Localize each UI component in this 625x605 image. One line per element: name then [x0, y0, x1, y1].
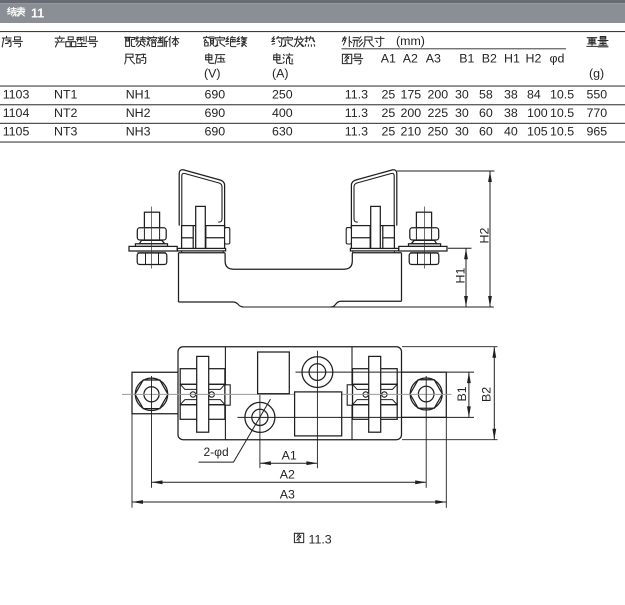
- svg-text:30: 30: [455, 106, 469, 120]
- block mid lines: [182, 237, 194, 239]
- H2 dimension line: [489, 171, 491, 307]
- A3 left extension: [131, 414, 133, 508]
- header 约定发热: [272, 36, 315, 46]
- svg-text:11.3: 11.3: [345, 125, 368, 139]
- header 配装熔断体: [125, 36, 179, 46]
- blade holder verticals: [192, 226, 194, 249]
- lug centerline / A2 left extension: [151, 376, 153, 488]
- stud: [416, 212, 431, 228]
- center upper rectangle: [258, 352, 290, 394]
- left pad outer circle: [135, 378, 167, 410]
- stud: [144, 212, 159, 228]
- spring clip inner: [354, 173, 394, 225]
- blade slot: [369, 356, 381, 432]
- header separator rule: [0, 86, 625, 87]
- leader line to 2-phi-d: [199, 399, 271, 462]
- right terminal bolt (mirrored): [399, 207, 447, 269]
- svg-text:A3: A3: [280, 487, 295, 501]
- contact plate: [180, 384, 225, 404]
- contact plate: [353, 384, 398, 404]
- upper clamp block: [180, 369, 225, 385]
- svg-text:10.5: 10.5: [550, 125, 574, 139]
- left mounting pad: [132, 372, 178, 414]
- right pad hole: [418, 386, 434, 402]
- center lower rectangle: [295, 392, 342, 436]
- fuse blade: [371, 206, 381, 248]
- svg-text:225: 225: [428, 106, 449, 120]
- svg-text:A1: A1: [282, 448, 297, 462]
- base bottom right: [331, 301, 402, 307]
- svg-text:400: 400: [272, 106, 293, 120]
- terminal bar: [129, 246, 177, 251]
- blade slot: [197, 356, 209, 432]
- caption 图 11.3: [294, 533, 303, 542]
- svg-text:H1: H1: [504, 51, 520, 65]
- header 电压: [206, 54, 225, 64]
- header bar: [0, 0, 625, 3]
- svg-text:630: 630: [272, 125, 293, 139]
- svg-text:NT2: NT2: [54, 106, 78, 120]
- rivet left: [382, 392, 387, 397]
- svg-text:10.5: 10.5: [550, 106, 574, 120]
- left pad hole: [144, 387, 159, 402]
- body outline: [178, 347, 402, 440]
- table bottom rule: [0, 142, 625, 143]
- svg-text:NH1: NH1: [126, 87, 151, 101]
- svg-text:B1: B1: [455, 386, 469, 401]
- contact block: [351, 226, 394, 249]
- top circle inner: [309, 364, 326, 381]
- svg-text:(g): (g): [589, 66, 604, 80]
- svg-text:690: 690: [205, 106, 226, 120]
- H1 dimension line: [465, 248, 467, 307]
- svg-text:10.5: 10.5: [550, 87, 574, 101]
- platform edge line: [224, 347, 226, 440]
- svg-text:210: 210: [401, 125, 422, 139]
- H2 top extension line: [397, 170, 495, 172]
- hole vertical crosshair / A1 left extension: [259, 395, 261, 468]
- svg-text:11.3: 11.3: [345, 87, 368, 101]
- svg-text:NT3: NT3: [54, 125, 78, 139]
- nut chamfer: [411, 240, 437, 243]
- right pad hex nut: [410, 380, 442, 409]
- plinth feet: [393, 251, 395, 253]
- blade holder verticals: [382, 226, 384, 249]
- svg-text:25: 25: [382, 106, 396, 120]
- svg-text:30: 30: [455, 125, 469, 139]
- svg-text:250: 250: [428, 125, 449, 139]
- rivet left: [190, 392, 195, 397]
- header 重量: [587, 37, 608, 47]
- washer line: [137, 251, 166, 253]
- table top rule: [0, 31, 625, 32]
- side tab: [346, 228, 351, 244]
- A3 dimension line: [132, 501, 446, 503]
- svg-text:NH3: NH3: [126, 125, 151, 139]
- B2 dimension line: [493, 347, 495, 440]
- svg-text:175: 175: [401, 87, 422, 101]
- side tab: [225, 228, 230, 244]
- side tab: [225, 385, 230, 405]
- svg-text:11.3: 11.3: [309, 532, 332, 546]
- tower plinth: [350, 248, 398, 251]
- svg-text:A3: A3: [426, 51, 441, 65]
- svg-text:100: 100: [527, 106, 548, 120]
- washer line: [410, 251, 439, 253]
- svg-text:690: 690: [205, 87, 226, 101]
- B2 extension lines: [402, 346, 498, 348]
- svg-text:H2: H2: [526, 51, 542, 65]
- svg-text:105: 105: [527, 125, 548, 139]
- svg-text:(A): (A): [272, 66, 289, 80]
- svg-text:60: 60: [479, 125, 493, 139]
- spring clip outer: [351, 170, 396, 230]
- A2 dimension line: [152, 481, 427, 483]
- header 电流: [274, 54, 293, 64]
- right pad outer circle: [410, 378, 442, 410]
- svg-text:A2: A2: [280, 468, 295, 482]
- svg-text:(mm): (mm): [396, 34, 425, 48]
- svg-text:60: 60: [479, 106, 493, 120]
- H1 top extension line: [448, 247, 472, 249]
- side tab: [347, 385, 352, 405]
- svg-text:11: 11: [31, 7, 44, 21]
- svg-text:58: 58: [479, 87, 493, 101]
- right contact tower (mirrored): [346, 170, 398, 253]
- base body outline top with saddle recess: [179, 253, 402, 269]
- header 尺码: [125, 54, 146, 64]
- base bottom left: [179, 302, 244, 307]
- svg-text:550: 550: [587, 87, 608, 101]
- base right edge: [401, 253, 403, 301]
- upper clamp block: [353, 369, 398, 385]
- left contact module (plan): [180, 347, 230, 440]
- upper nut: [410, 228, 439, 240]
- rivet right: [209, 392, 214, 397]
- plinth feet: [181, 251, 183, 253]
- B1 dimension line: [468, 372, 470, 417]
- svg-text:H1: H1: [454, 268, 468, 284]
- spring clip inner: [182, 173, 222, 225]
- left terminal bolt: [129, 207, 177, 269]
- spring clip outer: [179, 170, 224, 230]
- top circle outer: [302, 357, 333, 388]
- svg-text:25: 25: [382, 87, 396, 101]
- rivet right: [363, 392, 368, 397]
- svg-text:690: 690: [205, 125, 226, 139]
- header 额定绝缘: [204, 36, 247, 46]
- svg-text:200: 200: [401, 106, 422, 120]
- svg-text:(V): (V): [204, 66, 221, 80]
- A3 right extension: [445, 417, 447, 507]
- svg-text:40: 40: [504, 125, 518, 139]
- svg-text:A1: A1: [381, 51, 396, 65]
- terminal bar: [399, 246, 447, 251]
- svg-text:38: 38: [504, 87, 518, 101]
- svg-text:965: 965: [587, 125, 608, 139]
- top circle vertical crosshair / A1 right extension: [316, 351, 318, 469]
- title 续表 11: [8, 7, 25, 16]
- washer: [135, 244, 167, 247]
- svg-text:30: 30: [455, 87, 469, 101]
- header 外形尺寸: [342, 37, 384, 47]
- nut chamfer: [139, 240, 165, 243]
- svg-text:B2: B2: [479, 387, 493, 402]
- svg-text:1104: 1104: [3, 106, 30, 120]
- svg-text:770: 770: [587, 106, 608, 120]
- washer: [409, 244, 441, 247]
- header 产品型号: [55, 36, 98, 47]
- base bottom center line / H dimension extension line: [244, 306, 494, 308]
- hole horizontal crosshair / B1 bottom extension: [238, 416, 475, 418]
- platform edge line: [351, 347, 353, 440]
- svg-text:2-φd: 2-φd: [204, 445, 229, 459]
- svg-text:φd: φd: [550, 51, 565, 65]
- header 序号: [2, 36, 22, 47]
- rule under row 1104: [0, 123, 625, 124]
- A1 dimension line: [260, 462, 318, 464]
- svg-text:1105: 1105: [3, 125, 30, 139]
- left pad hex nut: [135, 380, 168, 409]
- base left edge: [178, 253, 180, 302]
- lower clamp block: [353, 405, 398, 420]
- svg-text:38: 38: [504, 106, 518, 120]
- gray horizontal centerline: [122, 393, 295, 395]
- svg-text:200: 200: [428, 87, 449, 101]
- svg-text:H2: H2: [477, 228, 491, 244]
- svg-text:B1: B1: [459, 51, 474, 65]
- phi-d hole outer: [245, 402, 275, 432]
- svg-text:1103: 1103: [3, 87, 30, 101]
- top circle horizontal crosshair / B1 top extension: [296, 371, 475, 373]
- phi-d hole inner: [252, 409, 268, 425]
- block mid lines: [383, 237, 395, 239]
- lower clamp block: [180, 405, 225, 420]
- contact block: [182, 226, 225, 249]
- header 图号: [342, 54, 362, 64]
- svg-text:B2: B2: [482, 51, 497, 65]
- svg-text:A2: A2: [403, 51, 418, 65]
- right contact module (plan, mirrored): [347, 347, 397, 440]
- upper nut: [137, 228, 166, 240]
- tower plinth: [177, 248, 225, 251]
- right mounting pad: [402, 372, 447, 417]
- lower nut: [409, 253, 439, 265]
- bolt centerline: [424, 207, 426, 269]
- lower nut: [137, 253, 167, 265]
- svg-text:250: 250: [272, 87, 293, 101]
- fuse blade: [196, 206, 206, 248]
- svg-text:11.3: 11.3: [345, 106, 368, 120]
- underline of 外形尺寸(mm) group: [342, 48, 567, 49]
- bolt centerline: [151, 207, 153, 269]
- svg-text:NT1: NT1: [54, 87, 78, 101]
- left contact tower: [177, 170, 229, 253]
- svg-text:84: 84: [527, 87, 541, 101]
- svg-text:NH2: NH2: [126, 106, 151, 120]
- lug centerline / A2 right extension: [425, 376, 427, 488]
- svg-text:25: 25: [382, 125, 396, 139]
- rule under row 1103: [0, 104, 625, 105]
